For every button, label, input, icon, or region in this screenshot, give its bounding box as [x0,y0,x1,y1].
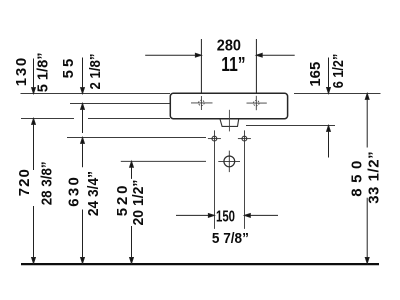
svg-text:850: 850 [348,161,365,197]
svg-text:130: 130 [13,58,30,86]
svg-text:11”: 11” [221,54,245,76]
dim 850 line [365,94,369,264]
wire drain bottom ext right [246,125,335,127]
wire bottom ext left a [21,118,74,120]
wire fixing hole level ext [67,137,206,139]
dim 150 arrows [176,214,278,218]
dim 720 line [32,119,36,264]
svg-text:33 1/2”: 33 1/2” [365,151,382,203]
fixing hole left [208,130,221,229]
svg-text:280: 280 [217,37,241,54]
wire top level line right [294,93,381,95]
svg-text:6 1/2”: 6 1/2” [330,54,347,89]
dim 520 line [130,161,134,263]
svg-text:5 1/8”: 5 1/8” [35,52,52,92]
drain fitting trapezoid [220,119,239,126]
washbasin body [170,93,287,118]
drain hole circle [218,151,240,173]
dim 130 arrow down [32,59,36,94]
svg-text:520: 520 [114,186,131,217]
svg-text:2 1/8”: 2 1/8” [87,54,104,90]
wire top level line left [21,93,171,95]
wire bottom ext left b [88,118,170,120]
dim 280 extension and arrows [145,39,295,93]
svg-text:630: 630 [66,177,83,207]
svg-text:720: 720 [16,169,33,196]
svg-text:24 3/4”: 24 3/4” [85,171,102,216]
svg-text:165: 165 [307,62,324,87]
svg-text:20 1/2”: 20 1/2” [130,180,147,226]
svg-text:28 3/8”: 28 3/8” [38,161,55,205]
dim 165 arrows [327,58,331,158]
floor line [21,263,379,265]
drain fitting centerline [228,110,230,132]
wire drain center ext [121,160,206,162]
wire deck level line [70,103,170,105]
fixing hole right [238,130,251,229]
dim 55 arrows [81,58,85,134]
faucet hole left crosshair [191,96,213,110]
faucet hole right crosshair [247,96,267,110]
svg-text:150: 150 [216,208,235,225]
svg-text:5 7/8”: 5 7/8” [212,230,249,247]
dim 630 line [81,138,85,264]
